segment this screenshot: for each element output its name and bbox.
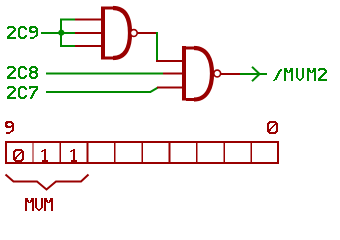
U1 pin stub C	[75, 45, 102, 47]
register divider 4	[114, 141, 116, 163]
wire 2C7 diagonal rise	[150, 88, 158, 93]
field label MVM (V)	[35, 198, 43, 211]
bit index 9	[5, 121, 14, 134]
brace under MVM field	[6, 175, 89, 190]
net label 2C9	[7, 26, 16, 39]
nand gate U2 body	[182, 46, 186, 101]
bit index 0	[267, 121, 278, 134]
register divider 2	[59, 141, 61, 163]
wire junction to U1 pin C	[60, 45, 75, 47]
nand gate U1 body	[101, 7, 105, 60]
register divider 9	[250, 141, 252, 163]
register divider 7	[196, 141, 198, 163]
register divider 8	[223, 141, 225, 163]
register divider 6	[169, 141, 171, 163]
register divider 5	[141, 141, 143, 163]
net label 2C7	[7, 86, 16, 99]
field label MVM (M)	[25, 198, 34, 211]
U1 output bubble	[130, 30, 137, 37]
net name /MVM2	[273, 69, 282, 81]
U1 pin stub B	[75, 32, 102, 34]
bit 8 value 1	[41, 149, 48, 162]
bit 7 value 1	[70, 149, 77, 162]
U1 pin stub A	[75, 19, 102, 21]
U2 output bubble	[214, 70, 221, 77]
junction dot	[58, 30, 64, 36]
register divider 3	[87, 141, 89, 163]
wire 2C7 horizontal	[46, 91, 151, 93]
field label MVM (M)	[44, 198, 53, 211]
wire U1 output horizontal red	[138, 32, 159, 34]
bit 9 value 0	[13, 149, 24, 162]
wire 2C8	[46, 73, 163, 75]
U2 pin stub C	[157, 87, 183, 89]
U2 pin stub A	[156, 60, 183, 62]
junction vertical wire	[60, 19, 62, 47]
U2 pin stub B	[163, 73, 183, 75]
net label 2C8	[7, 66, 16, 79]
wire U2 output red	[221, 73, 240, 75]
wire junction to U1 pin A	[60, 19, 75, 21]
register divider 1	[32, 141, 34, 163]
arrow head	[252, 67, 260, 81]
wire U2 output green	[240, 73, 267, 75]
wire U1 output vertical green	[156, 32, 158, 61]
wire 2C9 to junction	[41, 32, 76, 34]
register outer box	[6, 142, 278, 163]
